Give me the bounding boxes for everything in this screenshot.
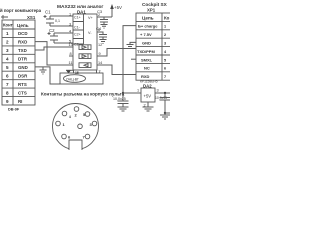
svg-text:+ 7.5V: + 7.5V — [140, 32, 152, 37]
DIN pin 2 (top) — [74, 107, 79, 112]
+5V net arrow — [110, 4, 122, 17]
wire ground rail to edge — [165, 112, 170, 114]
table XP (console connector), cut at right edge — [136, 13, 176, 80]
svg-text:TXD/PPM: TXD/PPM — [137, 49, 155, 54]
wire DA2 output to +5V rail — [155, 92, 170, 94]
wire R2OUT to TXD/PPM — [97, 49, 136, 57]
connector XP1 body (plug on cable) — [60, 73, 103, 84]
svg-text:V+: V+ — [88, 16, 94, 20]
svg-text:ОНЦ-ВГ: ОНЦ-ВГ — [66, 78, 79, 82]
svg-text:12: 12 — [98, 43, 102, 47]
svg-text:C3: C3 — [97, 9, 103, 14]
svg-text:2: 2 — [6, 40, 9, 45]
svg-text:DSR: DSR — [18, 74, 28, 79]
svg-text:DTR: DTR — [18, 57, 28, 62]
svg-text:DB-9F: DB-9F — [8, 108, 20, 112]
svg-text:1: 1 — [164, 25, 166, 29]
DIN pin center — [78, 124, 83, 129]
capacitor C2 — [48, 28, 74, 43]
svg-text:XP1: XP1 — [147, 8, 156, 13]
ground under C5 — [118, 107, 129, 111]
wire RXD to T1OUT — [35, 42, 73, 65]
svg-text:10,0х25: 10,0х25 — [113, 97, 126, 101]
DIN pin 5 (upper right) — [85, 112, 90, 117]
ground symbol near table — [40, 67, 47, 74]
svg-text:RXD: RXD — [141, 74, 150, 79]
svg-text:й порт компьютера: й порт компьютера — [0, 8, 42, 13]
svg-text:7: 7 — [164, 75, 166, 79]
svg-text:Цепь: Цепь — [17, 23, 29, 28]
svg-text:TXD: TXD — [18, 48, 27, 53]
svg-text:3: 3 — [69, 23, 71, 27]
connector shield ellipse — [64, 75, 86, 83]
svg-text:RXD: RXD — [18, 40, 27, 45]
wire GND row — [35, 67, 60, 84]
svg-text:SMXL: SMXL — [141, 57, 153, 62]
svg-text:4: 4 — [69, 30, 71, 34]
svg-text:13: 13 — [69, 43, 73, 47]
table XS1 signal names — [18, 31, 28, 104]
svg-text:5: 5 — [164, 58, 166, 62]
svg-text:7: 7 — [6, 82, 9, 87]
male connector tick mark — [1, 15, 8, 19]
receiver R2 row: pin 8 / 9 — [69, 52, 101, 59]
svg-text:0,1: 0,1 — [55, 19, 60, 23]
svg-text:C1-: C1- — [74, 26, 81, 30]
svg-text:9: 9 — [99, 52, 101, 56]
ground at bottom right — [160, 113, 170, 119]
svg-text:C4: C4 — [96, 26, 102, 31]
svg-text:NC: NC — [144, 66, 150, 71]
svg-text:Cockpit SX: Cockpit SX — [142, 2, 168, 7]
wire TXD to R1IN — [35, 47, 73, 50]
svg-text:C2: C2 — [49, 28, 55, 33]
pin 15 GND stub — [74, 70, 79, 75]
capacitor C6 10,0x16 — [155, 93, 170, 113]
svg-text:1: 1 — [69, 13, 71, 17]
svg-text:C1+: C1+ — [74, 16, 81, 20]
svg-text:Конт: Конт — [3, 23, 13, 28]
DIN pin 6 (lower left) — [62, 134, 67, 139]
key notch — [69, 140, 82, 150]
capacitor C4 — [96, 26, 107, 40]
wire T1IN from RXD row — [97, 65, 136, 75]
wire junction to DA2 input — [123, 92, 141, 94]
svg-text:GND: GND — [18, 65, 28, 70]
wire B+ charge to regulator — [123, 26, 136, 93]
table XP signal names — [137, 24, 158, 80]
svg-text:XS1: XS1 — [27, 15, 36, 20]
svg-text:14: 14 — [98, 61, 102, 65]
capacitor C3 — [97, 9, 112, 28]
pin 16 stub — [96, 70, 98, 74]
ground at right table GND row — [127, 42, 137, 48]
table XS1 (DB-9) frame — [2, 20, 35, 105]
svg-text:CTS: CTS — [18, 91, 27, 96]
svg-text:Ко: Ко — [164, 16, 170, 21]
stub SMXL — [131, 58, 136, 60]
capacitor C1 — [44, 10, 74, 27]
svg-text:5: 5 — [6, 65, 9, 70]
ground under C4 — [100, 40, 107, 44]
svg-text:Цепь: Цепь — [142, 16, 154, 21]
svg-text:Контакты разъема на корпусе пу: Контакты разъема на корпусе пульта — [41, 92, 125, 97]
svg-text:DCD: DCD — [18, 31, 28, 36]
svg-text:3: 3 — [164, 42, 166, 46]
IC DA1 body — [73, 14, 97, 70]
DIN pin 4 (upper left) — [62, 111, 67, 116]
wire DA2 gnd pin — [147, 102, 149, 107]
svg-text:2: 2 — [164, 33, 166, 37]
node: junction at output cap — [164, 92, 166, 94]
svg-text:RTS: RTS — [18, 82, 27, 87]
svg-text:1: 1 — [6, 31, 9, 36]
DIN connector face view circle — [53, 104, 99, 150]
svg-text:4: 4 — [6, 57, 9, 62]
receiver R1 row: pin 13 / 12 — [69, 43, 103, 50]
svg-text:3: 3 — [157, 89, 159, 93]
svg-text:C1: C1 — [45, 10, 51, 15]
svg-text:6: 6 — [164, 67, 166, 71]
svg-text:Б+ charge: Б+ charge — [138, 24, 158, 29]
DIN pin 3 (right) — [92, 121, 97, 126]
svg-text:C2+: C2+ — [74, 33, 81, 37]
contact numbers (cut at edge) — [164, 25, 167, 80]
DIN pin 1 (left) — [56, 121, 61, 126]
ground under DA2 — [143, 107, 154, 111]
node: junction at regulator input — [122, 92, 124, 94]
svg-text:8: 8 — [6, 91, 9, 96]
transmitter T1 row: pin 14 / 11 — [69, 61, 103, 68]
svg-text:3: 3 — [6, 48, 9, 53]
svg-text:GND: GND — [142, 41, 151, 46]
regulator DA2 body — [141, 88, 155, 102]
table XS1 pin numbers — [6, 31, 9, 104]
svg-text:4: 4 — [69, 115, 71, 119]
svg-text:11: 11 — [69, 61, 73, 65]
svg-text:6: 6 — [6, 74, 9, 79]
svg-text:9: 9 — [6, 99, 9, 104]
svg-text:+5V: +5V — [144, 94, 152, 99]
svg-text:1: 1 — [137, 89, 139, 93]
capacitor C5 10,0x25 — [113, 93, 129, 107]
svg-text:+5V: +5V — [114, 5, 122, 10]
node: junction at ground rail — [164, 112, 166, 114]
junction triangle into connector — [66, 70, 73, 73]
DIN pin 7 (lower right) — [85, 134, 90, 139]
svg-text:8: 8 — [70, 52, 72, 56]
svg-text:RI: RI — [18, 99, 22, 104]
